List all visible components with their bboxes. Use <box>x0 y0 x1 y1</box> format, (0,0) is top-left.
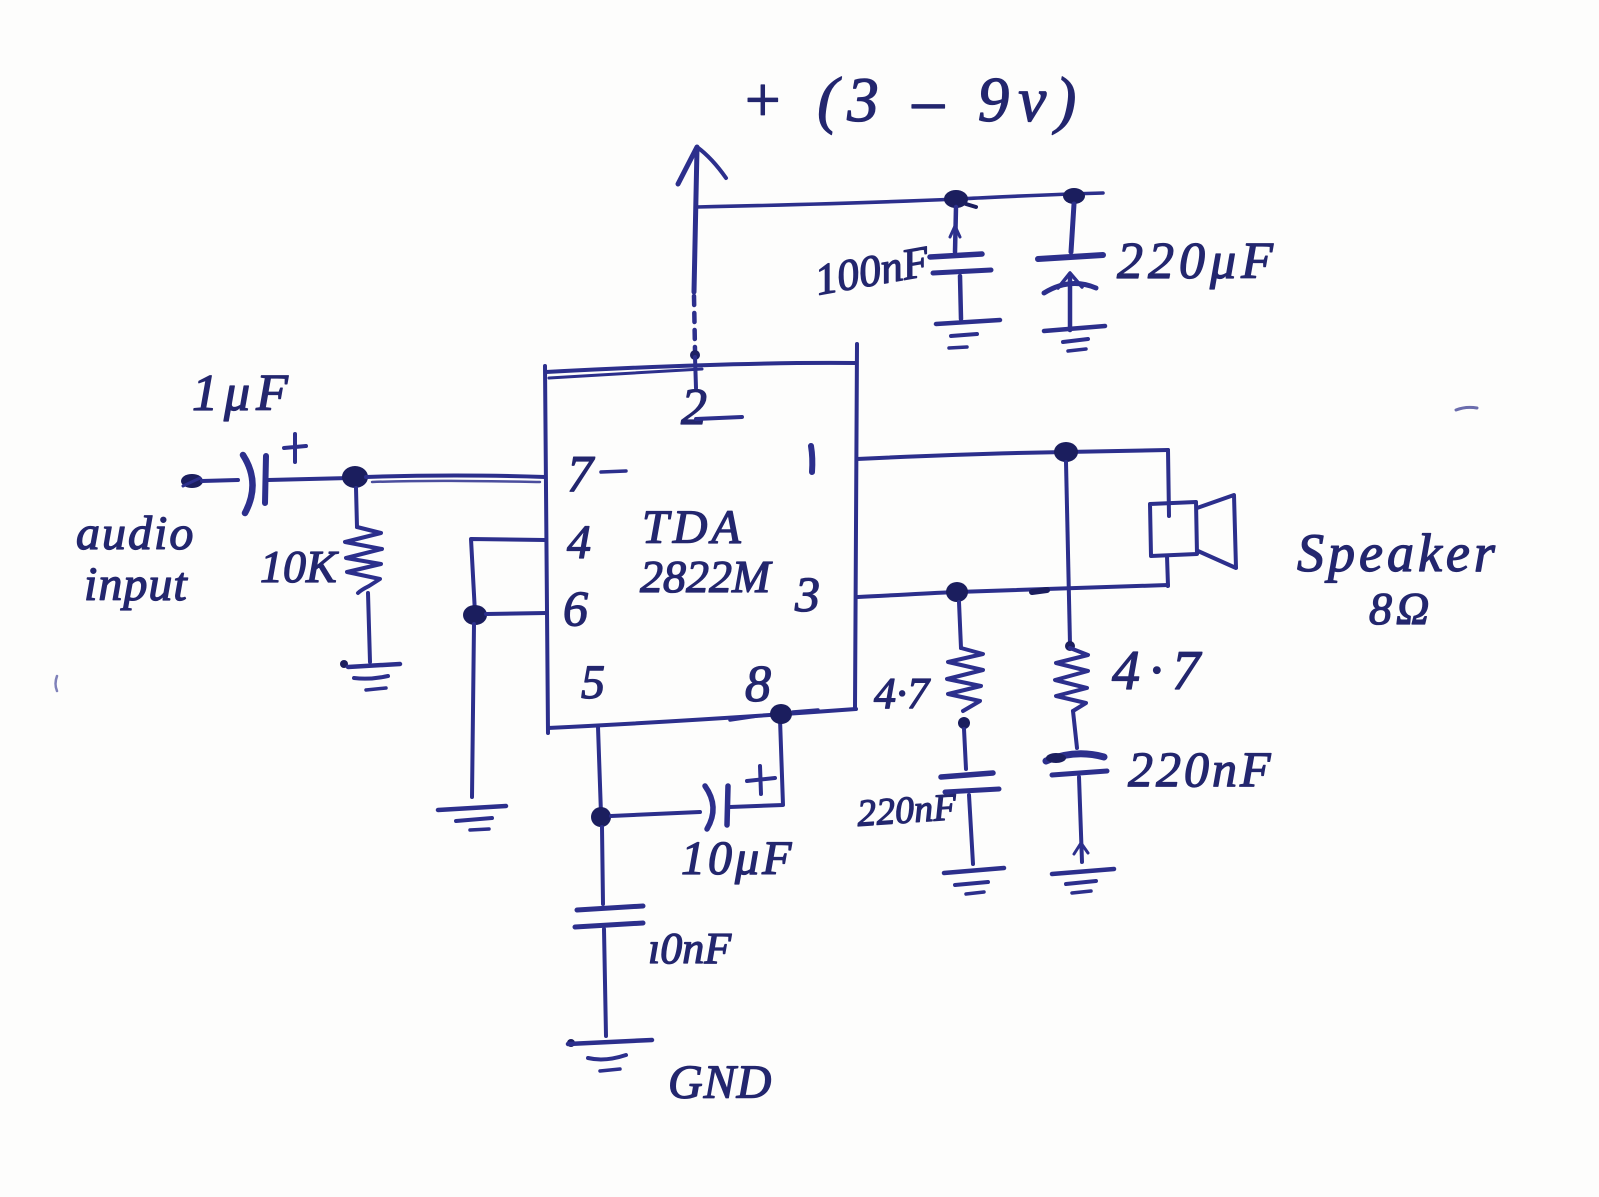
wire pin1 junction down <box>1066 462 1070 644</box>
ground under C6 <box>944 868 1004 894</box>
svg-text:5: 5 <box>581 656 605 709</box>
stray mark right <box>1456 407 1477 410</box>
node audio input terminal <box>181 474 203 488</box>
pin 1 label <box>811 446 812 472</box>
wire pin 4 loop <box>471 539 545 613</box>
svg-text:8Ω: 8Ω <box>1369 583 1433 634</box>
wire C7 to ground <box>1074 777 1088 862</box>
svg-text:audio: audio <box>76 507 195 560</box>
node R2/C6 <box>958 717 970 729</box>
svg-text:8: 8 <box>745 656 771 713</box>
svg-text:4: 4 <box>567 516 591 569</box>
wire junction to ground <box>472 624 474 797</box>
wire junction to pin 7 <box>366 476 545 478</box>
svg-text:10μF: 10μF <box>681 832 794 885</box>
node pin4/6 junction <box>463 605 487 625</box>
wire C3 to junction <box>268 478 350 480</box>
wire C5 to ground <box>604 929 606 1036</box>
svg-text:2: 2 <box>681 379 707 436</box>
op IC U1 TDA2822M box <box>545 344 857 733</box>
wire pin 6 <box>486 613 546 614</box>
node pin5 junction <box>591 807 611 827</box>
node rail junction B <box>1063 188 1085 204</box>
wire pin 5 down <box>598 727 601 814</box>
svg-text:TDA: TDA <box>642 501 745 554</box>
capacitor C6 220nF <box>941 773 999 792</box>
svg-text:7: 7 <box>567 446 595 503</box>
wire tick on pin3 wire <box>1032 590 1047 592</box>
power arrow <box>678 147 726 388</box>
wire junction to C4 <box>611 812 700 816</box>
node pin3 junction <box>946 582 968 602</box>
ground under C1 <box>936 320 1000 348</box>
svg-text:220μF: 220μF <box>1117 233 1278 290</box>
capacitor C4 10uF <box>705 766 775 829</box>
svg-text:GND: GND <box>668 1056 772 1109</box>
svg-text:input: input <box>84 558 188 611</box>
capacitor C1 100nF <box>930 207 991 319</box>
wire pin 1 to speaker <box>857 450 1168 459</box>
ground pin4/6 <box>438 806 506 830</box>
ground under R1 <box>340 660 400 690</box>
resistor R3 4.7 <box>1055 641 1088 748</box>
svg-text:+ (3 – 9v): + (3 – 9v) <box>741 65 1085 135</box>
stray mark left <box>56 676 58 691</box>
resistor R1 10K <box>345 488 382 662</box>
node input junction <box>342 466 368 488</box>
node pin1 junction <box>1054 442 1078 462</box>
svg-text:220nF: 220nF <box>856 786 959 835</box>
capacitor C3 1uF <box>243 434 306 513</box>
wire R2 to C6 <box>964 729 966 769</box>
ground GND main <box>567 1039 652 1071</box>
resistor R2 4.7 <box>947 602 983 711</box>
svg-text:4·7: 4·7 <box>1112 640 1209 702</box>
svg-text:4·7: 4·7 <box>874 669 931 718</box>
svg-text:ı0nF: ı0nF <box>648 924 732 973</box>
wire C6 to ground <box>969 795 973 864</box>
wire power rail <box>697 193 1103 207</box>
svg-text:1μF: 1μF <box>192 365 294 422</box>
svg-text:6: 6 <box>563 580 588 636</box>
wire down to speaker top <box>1168 450 1169 516</box>
svg-text:2822M: 2822M <box>640 551 773 602</box>
speaker LS1 <box>1150 495 1236 568</box>
ground under C7 <box>1052 869 1114 893</box>
node pin 8 junction <box>730 704 818 724</box>
wire pin 3 <box>858 585 1168 597</box>
capacitor C7 220nF <box>1046 753 1107 775</box>
node rail junction A <box>944 190 968 208</box>
svg-text:3: 3 <box>794 566 820 622</box>
wire speaker bottom <box>1167 556 1168 586</box>
wire C4 to pin 8 <box>730 719 783 807</box>
svg-text:100nF: 100nF <box>811 236 934 304</box>
svg-text:220nF: 220nF <box>1128 741 1274 797</box>
wire pin5 junction down <box>602 827 603 904</box>
capacitor C5 10nF <box>575 906 643 927</box>
wire input to C3 <box>202 480 238 481</box>
svg-text:Speaker: Speaker <box>1297 523 1499 583</box>
ground under C2 <box>1044 326 1105 351</box>
capacitor C2 220uF <box>1038 204 1103 330</box>
svg-text:10K: 10K <box>260 541 339 592</box>
